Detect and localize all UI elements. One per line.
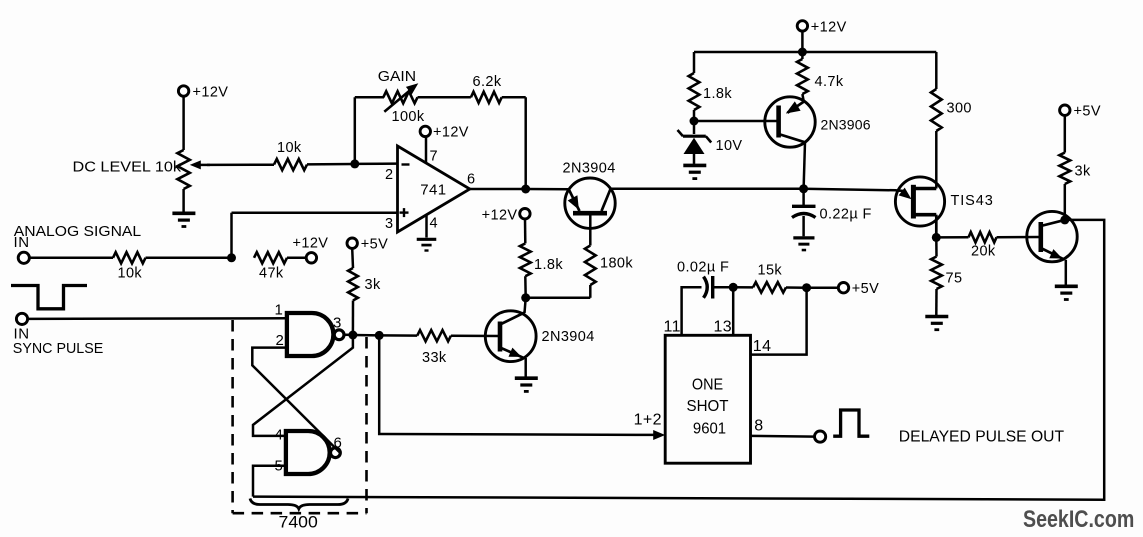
svg-text:7: 7 <box>430 149 438 165</box>
svg-text:4: 4 <box>430 216 438 232</box>
terminal +12V (top rail) <box>797 21 807 31</box>
wire sync input to gate 1 pin 1 <box>28 317 287 320</box>
resistor 1.8k (zener bias) <box>693 52 696 73</box>
NAND gate G1 (pins 1,2,3) <box>287 313 334 356</box>
wire pin 11 to cap <box>682 287 702 335</box>
resistor 3k (Q4 collector) <box>1060 105 1070 115</box>
transistor Q3 2N3906 <box>765 97 815 147</box>
svg-text:2N3904: 2N3904 <box>542 329 595 345</box>
svg-text:TIS43: TIS43 <box>951 193 994 209</box>
wire <box>693 110 696 121</box>
dashed box 7400 <box>233 320 367 513</box>
node +12V rail junction <box>798 48 807 57</box>
svg-text:0.22µ F: 0.22µ F <box>820 206 872 222</box>
wire <box>207 163 274 166</box>
wire 33k to Q2 base <box>451 335 500 338</box>
node analog input junction <box>227 253 236 262</box>
wire <box>418 96 471 99</box>
ground (Q2 emitter) <box>515 376 538 380</box>
wire cross-couple gate2-out to gate1 pin2 <box>252 348 339 453</box>
svg-text:ANALOG SIGNAL: ANALOG SIGNAL <box>14 223 141 240</box>
svg-text:14: 14 <box>753 338 772 355</box>
resistor 4.7k <box>801 52 804 59</box>
svg-text:1.8k: 1.8k <box>703 86 732 102</box>
input pulse waveform symbol <box>11 286 87 309</box>
wire <box>182 96 185 150</box>
svg-text:6: 6 <box>467 172 475 188</box>
wire <box>354 97 357 164</box>
svg-text:0.02µ F: 0.02µ F <box>677 260 729 276</box>
svg-text:75: 75 <box>946 270 963 286</box>
svg-text:180k: 180k <box>600 256 633 272</box>
terminal +12V (47k pull-up) <box>287 257 306 260</box>
transistor Q1 2N3904 (series) <box>565 178 615 228</box>
resistor 1.8k (Q2 collector pull-up) <box>524 276 527 298</box>
wire pin 4 <box>425 215 428 238</box>
wire Q3 collector <box>804 142 805 189</box>
svg-text:2: 2 <box>385 167 393 183</box>
capacitor C2 0.02uF <box>704 277 708 298</box>
wire Q1 to 2N3906 collector node <box>611 188 804 191</box>
svg-text:47k: 47k <box>259 266 284 282</box>
svg-text:SeekIC.com: SeekIC.com <box>1023 506 1134 533</box>
svg-text:10k: 10k <box>118 266 143 282</box>
svg-text:DC LEVEL 10k: DC LEVEL 10k <box>73 160 182 176</box>
wire <box>355 162 398 165</box>
zener diode D1 10V <box>693 121 696 134</box>
NAND gate G2 (pins 4,5,6) <box>286 431 330 474</box>
terminal +12V (op-amp supply pin 7) <box>425 136 428 163</box>
svg-text:3: 3 <box>385 216 393 232</box>
svg-text:SHOT: SHOT <box>687 398 729 415</box>
svg-text:3k: 3k <box>1075 164 1091 180</box>
svg-text:8: 8 <box>754 418 763 435</box>
node 15k/+5V junction <box>802 283 811 292</box>
wire Q2 emitter to ground <box>524 358 527 377</box>
resistor 10k (analog input) <box>113 252 146 263</box>
terminal +12V (1.8k) <box>524 219 527 244</box>
wire <box>146 257 232 260</box>
node 0.22uF junction <box>799 184 808 193</box>
svg-text:+5V: +5V <box>852 281 879 297</box>
wire gate2 pin5 to long feedback line <box>253 466 286 497</box>
node pin13 junction <box>729 283 738 292</box>
ground (DC level pot) <box>172 212 195 216</box>
wire op-amp output <box>470 188 526 191</box>
wire feedback to latch (long bottom line) <box>253 220 1104 500</box>
ground (75) <box>925 315 948 319</box>
wire 20k to Q4 base <box>997 236 1042 239</box>
svg-text:741: 741 <box>420 181 446 198</box>
wire to 2N3906 base <box>694 120 779 123</box>
resistor 33k <box>379 334 417 337</box>
capacitor C1 0.22uF <box>802 189 805 205</box>
resistor 300 <box>935 52 938 89</box>
svg-text:7400: 7400 <box>279 513 318 531</box>
wire to pin 3 <box>230 213 233 258</box>
wire <box>29 257 113 260</box>
node Q4 collector junction <box>1060 215 1069 224</box>
wire 180k to Q1 base <box>589 215 592 246</box>
wire +12V rail <box>694 51 936 54</box>
transistor Q4 (output) <box>1027 211 1077 261</box>
resistor 6.2k (feedback) <box>471 92 502 103</box>
svg-text:15k: 15k <box>758 263 783 279</box>
svg-text:ONE: ONE <box>692 376 723 393</box>
node junction B (to one-shot) <box>375 331 384 340</box>
node TIS43 base1 junction <box>932 233 941 242</box>
IC U2 ONE SHOT 9601 <box>665 335 750 463</box>
svg-text:DELAYED PULSE OUT: DELAYED PULSE OUT <box>899 428 1065 445</box>
svg-text:+5V: +5V <box>361 236 388 252</box>
svg-text:13: 13 <box>714 318 733 335</box>
svg-text:10k: 10k <box>277 140 302 156</box>
terminal delayed pulse out <box>815 431 826 442</box>
wire gate1 output <box>344 334 353 337</box>
terminal +12V (DC level pot supply) <box>178 86 188 96</box>
op-amp U1 741 <box>398 146 470 232</box>
brace under 7400 gates <box>250 499 348 509</box>
svg-text:2N3906: 2N3906 <box>821 117 871 133</box>
svg-text:11: 11 <box>664 318 681 335</box>
svg-text:3: 3 <box>333 315 342 332</box>
node zener/base junction <box>690 117 699 126</box>
svg-text:+5V: +5V <box>1074 104 1101 120</box>
wire to TIS43 <box>804 189 896 191</box>
svg-text:+12V: +12V <box>433 125 469 141</box>
wire 75 to ground <box>935 289 938 315</box>
ground (0.22uF) <box>793 236 814 239</box>
wire <box>801 31 804 52</box>
wire op-amp output to Q1 <box>526 188 570 191</box>
svg-text:6.2k: 6.2k <box>473 74 502 90</box>
wire zener to ground <box>693 154 696 164</box>
svg-text:1+2: 1+2 <box>634 411 662 428</box>
node op-amp output junction <box>521 185 530 194</box>
resistor 3k (gate pull-up) <box>347 238 357 248</box>
transistor Q2 2N3904 (switch) <box>485 311 536 362</box>
svg-text:300: 300 <box>947 100 972 116</box>
node Q2 collector junction <box>521 293 530 302</box>
resistor 180k <box>526 297 591 300</box>
ground (Q4 emitter) <box>1055 284 1078 288</box>
wire Q2 collector <box>525 298 526 313</box>
wire 300 to TIS43 base2 <box>935 131 938 189</box>
ground (zener) <box>683 164 706 168</box>
wire junction B to one-shot input <box>379 335 656 435</box>
transistor TIS43 (UJT) <box>895 177 944 226</box>
svg-text:+12V: +12V <box>193 85 229 101</box>
svg-text:IN: IN <box>14 234 30 251</box>
svg-text:1.8k: 1.8k <box>534 257 563 273</box>
svg-text:33k: 33k <box>422 350 447 366</box>
svg-text:100k: 100k <box>392 109 425 125</box>
wire 4.7k to 2N3906 emitter <box>802 94 803 102</box>
output pulse waveform symbol <box>833 410 869 436</box>
wire <box>502 96 526 99</box>
terminal IN SYNC PULSE <box>16 313 27 324</box>
resistor 75 <box>935 237 938 256</box>
svg-text:2N3904: 2N3904 <box>563 161 616 177</box>
wire <box>307 163 355 166</box>
svg-text:3k: 3k <box>365 277 381 293</box>
svg-text:GAIN: GAIN <box>378 69 416 85</box>
potentiometer GAIN 100k <box>383 91 417 103</box>
wire pin 14 <box>751 288 807 355</box>
svg-text:SYNC PULSE: SYNC PULSE <box>13 340 104 357</box>
svg-text:+12V: +12V <box>482 207 518 223</box>
resistor 47k <box>254 252 287 263</box>
resistor 15k <box>733 286 753 289</box>
svg-text:+12V: +12V <box>811 19 847 35</box>
node feedback/pin2 junction <box>350 159 359 168</box>
wire pin 13 <box>732 287 735 335</box>
svg-text:9601: 9601 <box>693 420 726 437</box>
terminal ANALOG SIGNAL IN <box>18 252 29 263</box>
terminal +5V (one-shot timing) <box>807 286 839 289</box>
resistor 10k (to inverting input) <box>274 159 307 170</box>
resistor 20k <box>936 236 968 239</box>
wire cross-couple gate1-out to gate2 pin4 <box>253 335 353 436</box>
svg-text:10V: 10V <box>716 138 743 154</box>
svg-text:4.7k: 4.7k <box>815 74 844 90</box>
svg-text:+12V: +12V <box>293 235 329 251</box>
wire cap to junction <box>714 286 733 289</box>
wire 15k to +5V node <box>786 286 807 289</box>
potentiometer DC LEVEL 10k <box>177 150 189 189</box>
ground (op-amp pin 4) <box>417 238 437 241</box>
wire <box>353 334 379 337</box>
wire pin 8 to output terminal <box>751 435 815 438</box>
svg-text:20k: 20k <box>971 244 996 260</box>
wire Q4 emitter to ground <box>1065 260 1068 285</box>
wire <box>182 189 185 212</box>
node gate1 output junction A <box>348 331 357 340</box>
svg-text:1: 1 <box>275 301 284 318</box>
